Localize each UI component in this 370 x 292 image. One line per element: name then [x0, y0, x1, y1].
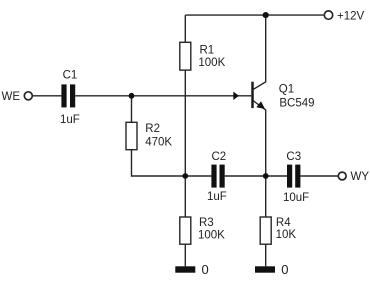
svg-text:R3: R3: [199, 217, 214, 229]
svg-text:C2: C2: [212, 151, 227, 163]
svg-text:C3: C3: [286, 151, 301, 163]
svg-text:R4: R4: [276, 217, 291, 229]
svg-text:1uF: 1uF: [60, 114, 80, 126]
svg-text:0: 0: [202, 262, 209, 277]
svg-text:10uF: 10uF: [283, 192, 309, 204]
svg-text:WE: WE: [2, 91, 21, 103]
svg-text:1uF: 1uF: [207, 191, 227, 203]
svg-text:R1: R1: [200, 45, 215, 57]
svg-text:C1: C1: [63, 70, 78, 82]
svg-text:10K: 10K: [276, 229, 297, 241]
svg-text:BC549: BC549: [279, 97, 314, 109]
svg-text:0: 0: [281, 262, 288, 277]
svg-text:470K: 470K: [145, 137, 172, 149]
svg-text:WY: WY: [351, 171, 370, 183]
svg-text:100K: 100K: [198, 57, 225, 69]
svg-text:R2: R2: [145, 123, 160, 135]
svg-text:+12V: +12V: [337, 10, 365, 22]
svg-text:Q1: Q1: [279, 84, 294, 96]
svg-text:100K: 100K: [198, 230, 225, 242]
